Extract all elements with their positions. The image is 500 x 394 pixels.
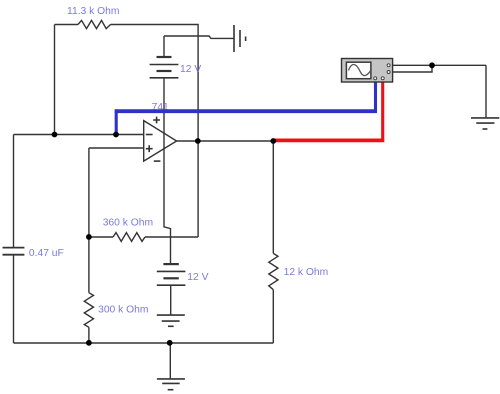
svg-text:0.47 uF: 0.47 uF [29, 248, 64, 259]
svg-text:360 k Ohm: 360 k Ohm [103, 218, 153, 229]
svg-text:11.3 k Ohm: 11.3 k Ohm [67, 6, 119, 17]
svg-text:12 k Ohm: 12 k Ohm [284, 267, 329, 278]
svg-text:12 V: 12 V [180, 64, 201, 75]
svg-text:300 k Ohm: 300 k Ohm [98, 305, 148, 316]
svg-text:12 V: 12 V [187, 272, 208, 283]
